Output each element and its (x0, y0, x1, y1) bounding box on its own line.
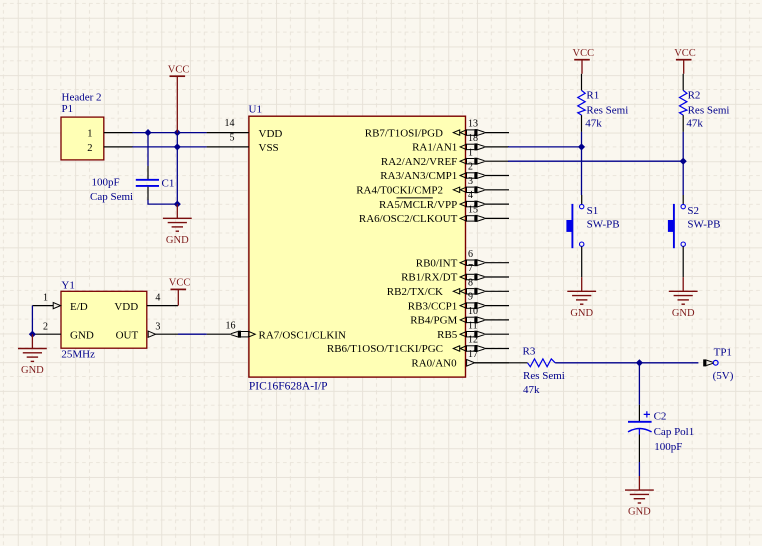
resistor R2 47k Res Semi (680, 74, 687, 132)
junction R2 / RA2 net (680, 158, 686, 164)
svg-text:SW-PB: SW-PB (687, 218, 720, 230)
pin 17 of U1: RA0/AN0 (411, 349, 509, 370)
svg-text:SW-PB: SW-PB (587, 218, 620, 230)
svg-text:TP1: TP1 (714, 346, 732, 358)
wire R3 to TP1 (555, 362, 698, 364)
pin 2 of P1 (87, 143, 132, 154)
svg-text:1: 1 (87, 129, 92, 140)
svg-text:RA0/AN0: RA0/AN0 (411, 358, 457, 370)
svg-text:15: 15 (468, 205, 478, 216)
svg-text:RA2/AN2/VREF: RA2/AN2/VREF (381, 156, 457, 168)
wire S2 top pin stub (682, 195, 684, 204)
svg-text:VSS: VSS (259, 142, 279, 154)
power port VCC (R1) (573, 48, 595, 74)
power port VCC (near P1) (168, 64, 190, 132)
svg-text:2: 2 (87, 143, 92, 154)
power port VCC (Y1) (169, 278, 191, 306)
svg-text:47k: 47k (523, 384, 540, 396)
pin 8 of U1: RB2/TX/CK (387, 277, 509, 298)
pin 3 of U1: RA4/T0CKI/CMP2 (356, 176, 509, 197)
pin 1 of Y1: E/D (32, 293, 87, 313)
svg-text:11: 11 (468, 320, 478, 331)
svg-text:GND: GND (570, 308, 593, 319)
wire S2 to GND (682, 246, 684, 277)
power port GND (Y1) (18, 334, 47, 376)
pin 13 of U1: RB7/T1OSI/PGD (365, 119, 509, 140)
op-amp/IC U1 PIC16F628A-I/P body (249, 116, 466, 377)
wire C2 to GND (638, 462, 640, 476)
svg-text:VDD: VDD (259, 128, 283, 140)
pin 11 of U1: RB5 (437, 320, 509, 341)
pin 12 of U1: RB6/T1OSO/T1CKI/PGC (327, 335, 509, 356)
pin 5 of U1: VSS (207, 132, 279, 154)
svg-text:Y1: Y1 (61, 279, 74, 291)
svg-text:2: 2 (43, 321, 48, 332)
wire S1 to GND (581, 247, 583, 278)
pin 15 of U1: RA6/OSC2/CLKOUT (359, 205, 509, 226)
svg-text:Header 2: Header 2 (62, 92, 102, 104)
svg-text:16: 16 (226, 321, 236, 332)
svg-text:10: 10 (468, 306, 478, 317)
svg-text:VCC: VCC (573, 48, 595, 59)
svg-text:7: 7 (468, 263, 473, 274)
test point TP1 (703, 359, 718, 366)
pin 10 of U1: RB4/PGM (410, 306, 509, 327)
pin 4 of Y1: VDD (114, 293, 178, 313)
pin 16 of U1: RA7/OSC1/CLKIN (207, 321, 346, 342)
svg-text:RB5: RB5 (437, 329, 458, 341)
svg-text:RB2/TX/CK: RB2/TX/CK (387, 286, 443, 298)
capacitor C2 Cap Pol1 (628, 405, 652, 462)
pin 7 of U1: RB1/RX/DT (401, 263, 509, 284)
svg-text:U1: U1 (249, 103, 262, 115)
wire R2 branch vertical to S2 (682, 132, 684, 195)
junction C1-bottom / GND branch (174, 201, 180, 207)
wire VDD net: P1.1 / VCC / C1 / U1.VDD (row y=132.6) (132, 132, 207, 134)
svg-text:1: 1 (43, 293, 48, 304)
svg-text:47k: 47k (585, 118, 602, 130)
junction R3 / C2 branch (636, 360, 642, 366)
wire C2 branch vertical (638, 363, 640, 405)
power port GND (below C1) (163, 204, 192, 246)
svg-text:25MHz: 25MHz (61, 349, 95, 361)
svg-text:Cap Semi: Cap Semi (90, 191, 133, 203)
pin 3 of Y1: OUT (116, 321, 178, 341)
junction VCC / VDD net (174, 130, 180, 136)
svg-text:12: 12 (468, 335, 478, 346)
svg-text:9: 9 (468, 292, 473, 303)
svg-text:RB0/INT: RB0/INT (416, 257, 458, 269)
junction C1-top / VDD net (145, 130, 151, 136)
wire RA2 net from U1 pin 1 (508, 160, 683, 162)
svg-text:17: 17 (468, 349, 478, 360)
wire VSS net: P1.2 / GND / U1.VSS (row y=146.9) (132, 146, 207, 148)
wire Y1 E/D to GND vertical (31, 306, 33, 335)
switch S2 SW-PB (668, 204, 686, 248)
junction R1 / RA1 net (579, 144, 585, 150)
svg-text:2: 2 (468, 162, 473, 173)
wire RA0 net from U1 pin 17 to R3 (475, 362, 528, 364)
wire RA1 net from U1 pin 18 (508, 146, 582, 148)
wire Y1 OUT to U1 RA7 (net OSC) (178, 333, 207, 335)
svg-text:VDD: VDD (114, 301, 138, 313)
svg-text:S1: S1 (587, 205, 599, 217)
svg-text:RB6/T1OSO/T1CKI/PGC: RB6/T1OSO/T1CKI/PGC (327, 343, 443, 355)
svg-text:RB3/CCP1: RB3/CCP1 (408, 300, 458, 312)
svg-text:4: 4 (155, 293, 160, 304)
svg-text:RA4/T0CKI/CMP2: RA4/T0CKI/CMP2 (356, 185, 443, 197)
wire R1 branch vertical to S1 (581, 132, 583, 195)
svg-text:Res Semi: Res Semi (523, 370, 565, 382)
svg-text:RB4/PGM: RB4/PGM (410, 315, 457, 327)
svg-text:VCC: VCC (169, 278, 191, 289)
svg-text:3: 3 (155, 321, 160, 332)
svg-text:C1: C1 (162, 177, 175, 189)
svg-text:Res Semi: Res Semi (688, 104, 730, 116)
svg-text:Cap Pol1: Cap Pol1 (654, 426, 695, 438)
power port VCC (R2) (674, 48, 696, 74)
resistor R3 47k Res Semi (horizontal) (528, 359, 556, 367)
pin 6 of U1: RB0/INT (416, 249, 509, 270)
svg-text:6: 6 (468, 249, 473, 260)
pin 1 of U1: RA2/AN2/VREF (381, 147, 509, 168)
svg-text:RB7/T1OSI/PGD: RB7/T1OSI/PGD (365, 127, 443, 139)
pin 9 of U1: RB3/CCP1 (408, 292, 509, 313)
pin 18 of U1: RA1/AN1 (412, 133, 509, 154)
svg-text:5: 5 (230, 132, 235, 143)
svg-text:RA7/OSC1/CLKIN: RA7/OSC1/CLKIN (259, 329, 346, 341)
svg-text:VCC: VCC (168, 64, 190, 75)
junction Y1 GND branch (29, 331, 35, 337)
power port GND (S1) (567, 277, 596, 319)
svg-text:14: 14 (225, 118, 235, 129)
pin 1 of P1 (87, 129, 132, 140)
wire S1 top pin stub (581, 195, 583, 204)
svg-text:1: 1 (468, 147, 473, 158)
svg-text:Res Semi: Res Semi (586, 104, 628, 116)
power port GND (C2) (625, 476, 654, 518)
svg-text:R3: R3 (523, 345, 536, 357)
wire C1 bottom elbow to GND branch (148, 200, 177, 205)
power port GND (S2) (669, 277, 698, 319)
svg-text:P1: P1 (62, 103, 74, 115)
svg-text:13: 13 (468, 119, 478, 130)
wire C1 top branch vertical (147, 133, 149, 166)
junction GND branch / VSS net (174, 144, 180, 150)
svg-text:GND: GND (166, 235, 189, 246)
pin 14 of U1: VDD (207, 118, 283, 140)
svg-text:C2: C2 (654, 410, 667, 422)
svg-text:18: 18 (468, 133, 478, 144)
svg-text:RA6/OSC2/CLKOUT: RA6/OSC2/CLKOUT (359, 213, 458, 225)
svg-text:S2: S2 (687, 205, 699, 217)
svg-text:GND: GND (628, 507, 651, 518)
svg-text:R2: R2 (688, 90, 701, 102)
svg-text:GND: GND (70, 330, 94, 342)
svg-text:3: 3 (468, 176, 473, 187)
svg-text:VCC: VCC (674, 48, 696, 59)
svg-text:4: 4 (468, 190, 473, 201)
svg-text:100pF: 100pF (654, 441, 682, 453)
svg-text:PIC16F628A-I/P: PIC16F628A-I/P (249, 380, 328, 392)
svg-text:100pF: 100pF (92, 177, 120, 189)
svg-text:RA5/MCLR/VPP: RA5/MCLR/VPP (379, 199, 457, 211)
svg-text:OUT: OUT (116, 330, 139, 342)
resistor R1 47k Res Semi (578, 74, 585, 132)
svg-text:47k: 47k (686, 118, 703, 130)
svg-text:R1: R1 (586, 90, 599, 102)
oscillator Y1 body (61, 291, 147, 348)
header P1 (Header 2) (61, 117, 104, 160)
svg-text:8: 8 (468, 277, 473, 288)
svg-text:RA1/AN1: RA1/AN1 (412, 142, 457, 154)
switch S1 SW-PB (566, 204, 584, 248)
capacitor C1 (136, 166, 159, 200)
wire VCC/GND vertical branch x=177.3 (176, 133, 178, 205)
svg-text:GND: GND (21, 365, 44, 376)
pin 2 of U1: RA3/AN3/CMP1 (380, 162, 509, 183)
pin 2 of Y1: GND (32, 321, 93, 341)
svg-text:E/D: E/D (70, 301, 88, 313)
pin 4 of U1: RA5/MCLR/VPP (379, 190, 509, 211)
svg-text:GND: GND (672, 308, 695, 319)
svg-text:RA3/AN3/CMP1: RA3/AN3/CMP1 (380, 170, 457, 182)
svg-text:RB1/RX/DT: RB1/RX/DT (401, 272, 458, 284)
svg-text:(5V): (5V) (713, 370, 734, 382)
